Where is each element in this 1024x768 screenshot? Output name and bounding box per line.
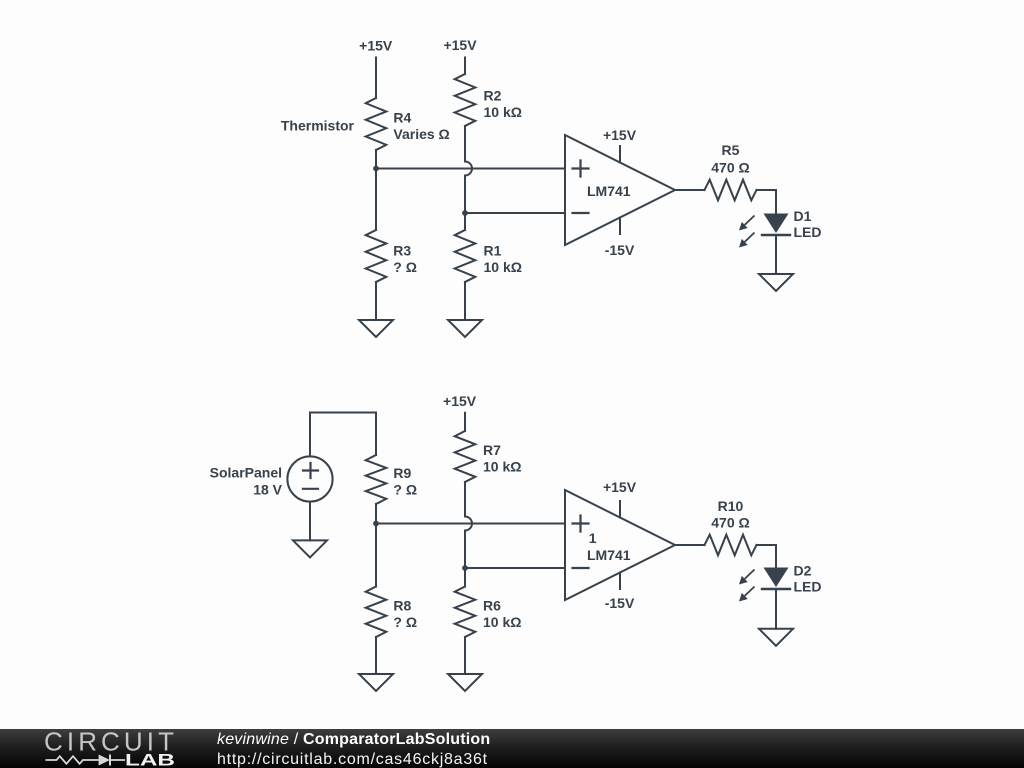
- svg-text:R10: R10: [718, 498, 744, 514]
- svg-text:LM741: LM741: [587, 547, 631, 563]
- svg-text:R3: R3: [393, 243, 411, 259]
- svg-text:10 kΩ: 10 kΩ: [483, 614, 521, 630]
- svg-text:SolarPanel: SolarPanel: [210, 465, 282, 481]
- svg-text:LAB: LAB: [125, 752, 175, 768]
- svg-text:LED: LED: [794, 579, 822, 595]
- svg-text:? Ω: ? Ω: [393, 259, 417, 275]
- svg-text:R8: R8: [393, 597, 411, 613]
- svg-text:+15V: +15V: [603, 479, 637, 495]
- svg-text:Varies Ω: Varies Ω: [393, 126, 449, 142]
- svg-text:10 kΩ: 10 kΩ: [484, 259, 522, 275]
- svg-text:10 kΩ: 10 kΩ: [483, 459, 521, 475]
- svg-text:R5: R5: [722, 142, 740, 158]
- svg-text:+15V: +15V: [443, 393, 477, 409]
- svg-text:+15V: +15V: [603, 127, 637, 143]
- svg-text:D2: D2: [794, 563, 812, 579]
- svg-text:Thermistor: Thermistor: [281, 118, 355, 134]
- svg-text:D1: D1: [794, 208, 812, 224]
- svg-text:1: 1: [589, 530, 597, 546]
- svg-text:-15V: -15V: [605, 595, 635, 611]
- svg-text:R7: R7: [483, 442, 501, 458]
- svg-text:470 Ω: 470 Ω: [711, 515, 749, 531]
- svg-text:+15V: +15V: [359, 37, 393, 53]
- svg-text:-15V: -15V: [605, 242, 635, 258]
- svg-text:? Ω: ? Ω: [393, 614, 417, 630]
- svg-text:R4: R4: [393, 109, 411, 125]
- svg-text:R1: R1: [484, 243, 502, 259]
- svg-text:R6: R6: [483, 597, 501, 613]
- svg-text:LM741: LM741: [587, 183, 631, 199]
- svg-text:10 kΩ: 10 kΩ: [484, 104, 522, 120]
- svg-text:470 Ω: 470 Ω: [711, 160, 749, 176]
- svg-text:R9: R9: [393, 465, 411, 481]
- svg-text:18 V: 18 V: [253, 481, 282, 497]
- svg-text:R2: R2: [484, 87, 502, 103]
- svg-text:LED: LED: [794, 224, 822, 240]
- svg-text:? Ω: ? Ω: [393, 482, 417, 498]
- svg-text:+15V: +15V: [443, 37, 477, 53]
